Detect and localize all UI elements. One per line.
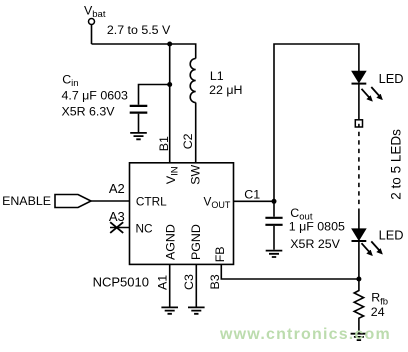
svg-text:AGND: AGND [163, 224, 177, 260]
svg-text:www.cntronics.com: www.cntronics.com [219, 326, 391, 343]
svg-text:ENABLE: ENABLE [2, 194, 51, 208]
svg-text:X5R 25V: X5R 25V [290, 237, 340, 251]
svg-text:1 μF 0805: 1 μF 0805 [289, 220, 345, 234]
svg-text:L1: L1 [210, 69, 224, 83]
svg-text:A1: A1 [156, 275, 170, 290]
svg-text:B1: B1 [157, 136, 171, 151]
svg-text:4.7 μF 0603: 4.7 μF 0603 [62, 88, 128, 102]
svg-text:FB: FB [213, 246, 227, 262]
svg-text:PGND: PGND [189, 224, 203, 260]
svg-text:A3: A3 [109, 209, 125, 224]
svg-text:2 to 5 LEDs: 2 to 5 LEDs [388, 129, 403, 200]
svg-text:CTRL: CTRL [136, 195, 167, 209]
svg-text:B3: B3 [208, 274, 222, 289]
svg-text:LED: LED [379, 71, 404, 86]
svg-text:A2: A2 [109, 181, 125, 196]
svg-text:NCP5010: NCP5010 [93, 275, 149, 290]
svg-text:2.7 to 5.5 V: 2.7 to 5.5 V [107, 23, 171, 37]
svg-text:NC: NC [136, 222, 154, 236]
svg-text:22 μH: 22 μH [209, 83, 242, 97]
svg-text:LED: LED [379, 227, 404, 242]
svg-text:C1: C1 [244, 187, 260, 201]
svg-text:C2: C2 [181, 133, 195, 149]
svg-text:C3: C3 [182, 274, 196, 290]
svg-text:SW: SW [189, 165, 203, 185]
svg-text:24: 24 [371, 305, 385, 319]
svg-text:X5R 6.3V: X5R 6.3V [62, 105, 116, 119]
